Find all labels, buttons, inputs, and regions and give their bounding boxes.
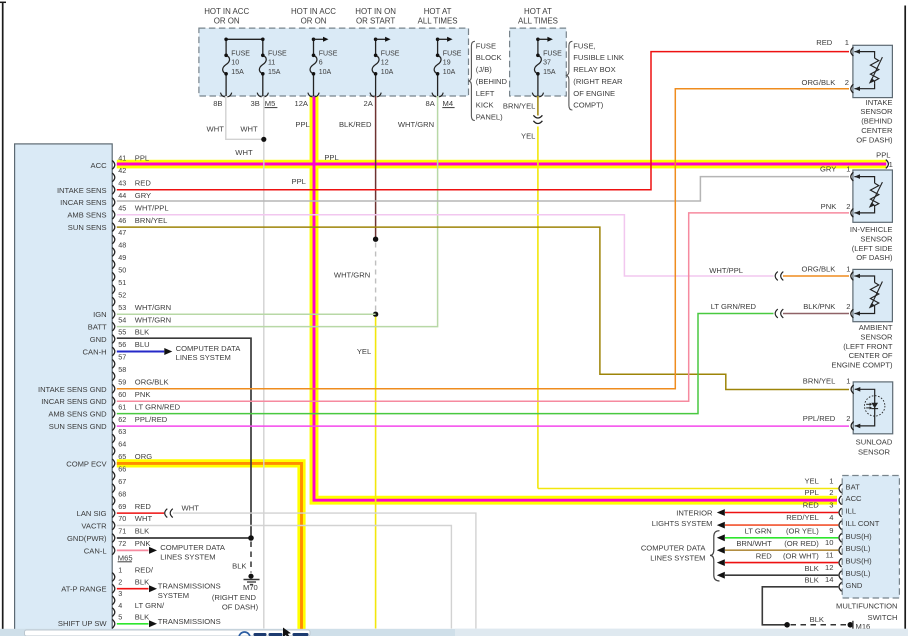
svg-text:6: 6	[319, 60, 323, 67]
svg-text:LT GRN: LT GRN	[745, 527, 772, 536]
svg-text:BAT: BAT	[846, 483, 861, 492]
svg-text:YEL: YEL	[804, 477, 818, 486]
svg-text:42: 42	[118, 166, 126, 175]
svg-text:41: 41	[118, 154, 126, 163]
svg-text:BLK: BLK	[804, 576, 818, 585]
svg-text:61: 61	[118, 402, 126, 411]
svg-text:PPL/RED: PPL/RED	[803, 414, 836, 423]
svg-text:IGN: IGN	[93, 310, 107, 319]
svg-text:11: 11	[826, 551, 834, 560]
svg-text:FUSE: FUSE	[476, 41, 496, 50]
svg-text:SENSOR: SENSOR	[860, 107, 893, 116]
svg-text:12: 12	[825, 563, 833, 572]
svg-text:SENSOR: SENSOR	[858, 447, 891, 456]
svg-text:BLK/PNK: BLK/PNK	[803, 302, 835, 311]
svg-text:GND(PWR): GND(PWR)	[67, 534, 107, 543]
svg-text:4: 4	[118, 601, 122, 610]
svg-text:GND: GND	[846, 581, 863, 590]
svg-text:OF DASH): OF DASH)	[222, 602, 259, 611]
svg-text:52: 52	[118, 290, 126, 299]
svg-text:BRN/WHT: BRN/WHT	[736, 539, 772, 548]
svg-text:LIGHTS SYSTEM: LIGHTS SYSTEM	[652, 519, 713, 528]
svg-text:ORG/BLK: ORG/BLK	[802, 265, 836, 274]
svg-text:INCAR SENS GND: INCAR SENS GND	[41, 397, 107, 406]
svg-text:M5: M5	[265, 99, 276, 108]
svg-text:1: 1	[846, 377, 850, 386]
svg-text:70: 70	[118, 514, 126, 523]
svg-text:INCAR SENS: INCAR SENS	[60, 198, 106, 207]
svg-text:PPL: PPL	[876, 151, 890, 160]
svg-text:PNK: PNK	[135, 390, 151, 399]
svg-text:PANEL): PANEL)	[476, 113, 503, 122]
svg-text:19: 19	[443, 60, 451, 67]
svg-text:BLK/RED: BLK/RED	[339, 120, 372, 129]
svg-text:FUSE: FUSE	[381, 50, 400, 57]
svg-text:BLK: BLK	[135, 527, 149, 536]
svg-text:ILL CONT: ILL CONT	[846, 519, 880, 528]
svg-text:BLK: BLK	[232, 562, 246, 571]
svg-text:INTAKE SENS GND: INTAKE SENS GND	[38, 385, 107, 394]
svg-text:WHT: WHT	[182, 504, 200, 513]
svg-text:LT GRN/RED: LT GRN/RED	[711, 302, 757, 311]
svg-text:OR ON: OR ON	[214, 17, 240, 26]
svg-text:47: 47	[118, 228, 126, 237]
svg-text:RED: RED	[803, 501, 820, 510]
svg-text:AT-P RANGE: AT-P RANGE	[61, 585, 106, 594]
svg-text:10: 10	[825, 538, 833, 547]
svg-text:57: 57	[118, 353, 126, 362]
svg-text:2: 2	[846, 202, 850, 211]
svg-text:PPL/RED: PPL/RED	[135, 415, 168, 424]
svg-text:56: 56	[118, 340, 126, 349]
svg-text:PPL: PPL	[804, 488, 818, 497]
svg-text:1: 1	[889, 160, 893, 169]
svg-text:VACTR: VACTR	[81, 522, 107, 531]
svg-text:LINES SYSTEM: LINES SYSTEM	[650, 554, 705, 563]
svg-text:LT GRN/RED: LT GRN/RED	[135, 402, 181, 411]
svg-text:37: 37	[543, 60, 551, 67]
svg-text:2: 2	[845, 78, 849, 87]
svg-text:BLK: BLK	[804, 564, 818, 573]
svg-text:FUSE: FUSE	[319, 50, 338, 57]
svg-text:BLU: BLU	[135, 340, 150, 349]
svg-text:YEL: YEL	[521, 131, 535, 140]
svg-text:1: 1	[829, 477, 833, 486]
svg-text:2A: 2A	[364, 99, 374, 108]
svg-text:WHT: WHT	[240, 125, 258, 134]
svg-text:ORG/BLK: ORG/BLK	[802, 78, 836, 87]
svg-text:AMB SENS GND: AMB SENS GND	[48, 410, 107, 419]
svg-text:COMPUTER DATA: COMPUTER DATA	[176, 344, 242, 353]
svg-text:WHT/PPL: WHT/PPL	[709, 266, 743, 275]
svg-text:RED: RED	[816, 38, 833, 47]
svg-text:8A: 8A	[426, 99, 436, 108]
svg-text:RED/YEL: RED/YEL	[786, 513, 819, 522]
svg-text:OF ENGINE: OF ENGINE	[573, 89, 615, 98]
svg-text:M65: M65	[118, 553, 133, 562]
svg-text:1: 1	[118, 566, 122, 575]
svg-text:RELAY BOX: RELAY BOX	[573, 65, 615, 74]
svg-text:INTAKE SENS: INTAKE SENS	[57, 186, 107, 195]
svg-text:(BEHIND: (BEHIND	[476, 77, 508, 86]
svg-text:(LEFT FRONT: (LEFT FRONT	[843, 342, 893, 351]
svg-text:59: 59	[118, 378, 126, 387]
svg-text:68: 68	[118, 489, 126, 498]
svg-text:72: 72	[118, 539, 126, 548]
svg-text:ACC: ACC	[846, 494, 863, 503]
svg-text:BLK: BLK	[135, 613, 149, 622]
svg-text:SUN SENS GND: SUN SENS GND	[49, 422, 107, 431]
svg-text:12: 12	[381, 60, 389, 67]
svg-text:IN-VEHICLE: IN-VEHICLE	[850, 225, 893, 234]
svg-text:WHT/GRN: WHT/GRN	[334, 271, 370, 280]
svg-text:62: 62	[118, 415, 126, 424]
svg-text:CENTER OF: CENTER OF	[849, 351, 893, 360]
svg-text:(LEFT SIDE: (LEFT SIDE	[852, 244, 893, 253]
svg-text:COMPUTER DATA: COMPUTER DATA	[160, 543, 226, 552]
svg-text:SENSOR: SENSOR	[860, 332, 893, 341]
svg-text:54: 54	[118, 315, 126, 324]
svg-text:FUSE: FUSE	[443, 50, 462, 57]
svg-text:PPL: PPL	[292, 177, 306, 186]
svg-text:SUNLOAD: SUNLOAD	[856, 438, 893, 447]
svg-text:LINES SYSTEM: LINES SYSTEM	[176, 353, 231, 362]
svg-text:14: 14	[825, 575, 833, 584]
svg-text:53: 53	[118, 303, 126, 312]
svg-text:FUSE: FUSE	[543, 50, 562, 57]
svg-text:ILL: ILL	[846, 507, 857, 516]
svg-text:OR ON: OR ON	[301, 17, 327, 26]
svg-text:RED: RED	[135, 179, 152, 188]
svg-text:OR START: OR START	[356, 17, 395, 26]
svg-text:2: 2	[846, 414, 850, 423]
svg-text:CAN-L: CAN-L	[84, 546, 107, 555]
svg-text:BLK: BLK	[810, 615, 824, 624]
svg-text:SENSOR: SENSOR	[860, 234, 893, 243]
svg-text:AMB SENS: AMB SENS	[67, 211, 106, 220]
svg-text:BLK: BLK	[135, 577, 149, 586]
svg-text:HOT IN ACC: HOT IN ACC	[291, 7, 336, 16]
svg-text:71: 71	[118, 527, 126, 536]
svg-text:66: 66	[118, 465, 126, 474]
svg-text:WHT/GRN: WHT/GRN	[398, 120, 434, 129]
svg-text:63: 63	[118, 427, 126, 436]
svg-text:ENGINE COMPT): ENGINE COMPT)	[831, 361, 893, 370]
svg-text:FUSE: FUSE	[268, 50, 287, 57]
svg-text:M4: M4	[443, 99, 454, 108]
svg-text:12A: 12A	[294, 99, 308, 108]
svg-text:15A: 15A	[543, 69, 556, 76]
svg-text:15A: 15A	[231, 69, 244, 76]
svg-text:PNK: PNK	[821, 202, 837, 211]
svg-text:INTAKE: INTAKE	[866, 98, 893, 107]
svg-text:(OR RED): (OR RED)	[784, 539, 819, 548]
svg-text:LEFT: LEFT	[476, 89, 495, 98]
svg-text:46: 46	[118, 216, 126, 225]
svg-text:FUSE: FUSE	[231, 50, 250, 57]
svg-text:AMBIENT: AMBIENT	[859, 323, 893, 332]
svg-text:(OR WHT): (OR WHT)	[783, 551, 819, 560]
svg-text:1: 1	[845, 38, 849, 47]
svg-text:GRY: GRY	[820, 164, 836, 173]
svg-text:3: 3	[118, 589, 122, 598]
svg-text:55: 55	[118, 328, 126, 337]
svg-text:FUSE,: FUSE,	[573, 41, 595, 50]
svg-text:WHT/GRN: WHT/GRN	[135, 315, 171, 324]
svg-text:48: 48	[118, 241, 126, 250]
svg-text:58: 58	[118, 365, 126, 374]
svg-text:ORG: ORG	[135, 452, 152, 461]
svg-text:RED/: RED/	[135, 566, 154, 575]
svg-text:BUS(H): BUS(H)	[846, 532, 873, 541]
svg-text:10A: 10A	[381, 69, 394, 76]
svg-text:51: 51	[118, 278, 126, 287]
svg-text:1: 1	[846, 265, 850, 274]
svg-text:HOT IN ACC: HOT IN ACC	[204, 7, 249, 16]
svg-text:WHT/GRN: WHT/GRN	[135, 303, 171, 312]
svg-text:COMP ECV: COMP ECV	[66, 459, 107, 468]
svg-text:10A: 10A	[319, 69, 332, 76]
svg-text:60: 60	[118, 390, 126, 399]
svg-text:HOT AT: HOT AT	[524, 7, 552, 16]
svg-text:SUN SENS: SUN SENS	[68, 223, 107, 232]
svg-text:CENTER: CENTER	[861, 126, 893, 135]
svg-text:4: 4	[829, 513, 833, 522]
svg-text:PPL: PPL	[135, 154, 149, 163]
svg-text:15A: 15A	[268, 69, 281, 76]
svg-text:ALL TIMES: ALL TIMES	[418, 17, 458, 26]
svg-text:RED: RED	[756, 551, 773, 560]
svg-text:TRANSMISSIONS: TRANSMISSIONS	[158, 581, 221, 590]
svg-text:64: 64	[118, 440, 126, 449]
svg-text:3B: 3B	[251, 99, 260, 108]
svg-text:2: 2	[846, 302, 850, 311]
svg-text:GRY: GRY	[135, 191, 151, 200]
svg-text:FUSIBLE LINK: FUSIBLE LINK	[573, 53, 624, 62]
svg-text:(OR YEL): (OR YEL)	[786, 527, 819, 536]
svg-text:KICK: KICK	[476, 101, 494, 110]
svg-text:44: 44	[118, 191, 126, 200]
svg-text:M70: M70	[243, 583, 258, 592]
svg-text:49: 49	[118, 253, 126, 262]
svg-text:CAN-H: CAN-H	[83, 348, 107, 357]
svg-text:9: 9	[829, 526, 833, 535]
svg-text:BATT: BATT	[88, 323, 107, 332]
svg-text:BRN/YEL: BRN/YEL	[803, 377, 836, 386]
svg-text:LAN SIG: LAN SIG	[77, 509, 107, 518]
svg-text:COMPT): COMPT)	[573, 101, 603, 110]
svg-text:TRANSMISSIONS: TRANSMISSIONS	[158, 617, 221, 626]
svg-text:69: 69	[118, 502, 126, 511]
svg-text:OF DASH): OF DASH)	[856, 135, 893, 144]
svg-text:67: 67	[118, 477, 126, 486]
svg-text:65: 65	[118, 452, 126, 461]
svg-text:5: 5	[118, 613, 122, 622]
svg-text:2: 2	[118, 577, 122, 586]
svg-text:RED: RED	[135, 502, 152, 511]
svg-text:SWITCH: SWITCH	[868, 613, 898, 622]
svg-text:43: 43	[118, 179, 126, 188]
svg-text:BLK: BLK	[135, 328, 149, 337]
svg-text:2: 2	[829, 488, 833, 497]
svg-text:1: 1	[846, 164, 850, 173]
svg-text:HOT AT: HOT AT	[424, 7, 452, 16]
svg-text:PPL: PPL	[295, 120, 309, 129]
svg-text:(J/B): (J/B)	[476, 65, 493, 74]
svg-text:50: 50	[118, 266, 126, 275]
svg-text:(BEHIND: (BEHIND	[861, 117, 893, 126]
svg-text:GND: GND	[90, 335, 107, 344]
svg-text:HOT IN ON: HOT IN ON	[355, 7, 396, 16]
svg-text:ACC: ACC	[91, 161, 108, 170]
svg-text:WHT/PPL: WHT/PPL	[135, 203, 169, 212]
svg-text:PNK: PNK	[135, 539, 151, 548]
svg-text:ALL TIMES: ALL TIMES	[518, 17, 558, 26]
svg-text:SHIFT UP SW: SHIFT UP SW	[58, 619, 107, 628]
svg-text:WHT: WHT	[235, 148, 253, 157]
svg-text:45: 45	[118, 203, 126, 212]
svg-text:11: 11	[268, 60, 275, 67]
svg-text:LT GRN/: LT GRN/	[135, 601, 165, 610]
svg-text:OF DASH): OF DASH)	[856, 253, 893, 262]
svg-text:10: 10	[231, 60, 239, 67]
svg-text:LINES SYSTEM: LINES SYSTEM	[160, 552, 215, 561]
svg-text:3: 3	[829, 501, 833, 510]
svg-text:BLOCK: BLOCK	[476, 53, 502, 62]
svg-text:MULTIFUNCTION: MULTIFUNCTION	[836, 601, 897, 610]
svg-text:8B: 8B	[213, 99, 222, 108]
svg-text:(RIGHT END: (RIGHT END	[212, 593, 257, 602]
svg-text:BUS(L): BUS(L)	[846, 569, 871, 578]
svg-text:PPL: PPL	[324, 153, 338, 162]
svg-text:BUS(L): BUS(L)	[846, 544, 871, 553]
svg-text:WHT: WHT	[207, 125, 225, 134]
svg-text:YEL: YEL	[357, 347, 371, 356]
svg-text:10A: 10A	[443, 69, 456, 76]
svg-text:(RIGHT REAR: (RIGHT REAR	[573, 77, 623, 86]
svg-text:ORG/BLK: ORG/BLK	[135, 378, 169, 387]
svg-text:BUS(H): BUS(H)	[846, 557, 873, 566]
svg-text:BRN/YEL: BRN/YEL	[135, 216, 168, 225]
svg-text:INTERIOR: INTERIOR	[676, 509, 713, 518]
svg-text:COMPUTER DATA: COMPUTER DATA	[641, 544, 707, 553]
svg-text:WHT: WHT	[135, 514, 153, 523]
svg-text:SYSTEM: SYSTEM	[158, 591, 189, 600]
svg-text:BRN/YEL: BRN/YEL	[503, 102, 536, 111]
